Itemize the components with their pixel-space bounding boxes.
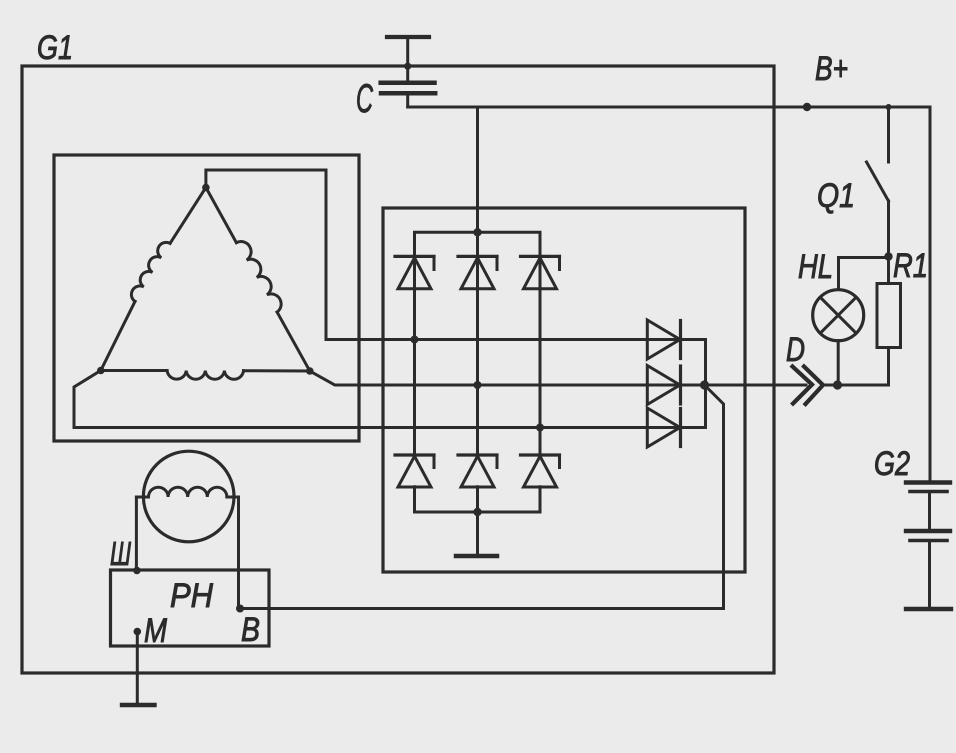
svg-text:G2: G2 [874, 445, 910, 483]
svg-text:HL: HL [798, 248, 833, 286]
svg-text:R1: R1 [893, 247, 928, 285]
svg-text:Q1: Q1 [817, 177, 855, 215]
svg-text:РН: РН [170, 577, 213, 615]
svg-text:G1: G1 [37, 29, 73, 67]
svg-text:C: C [356, 77, 374, 121]
svg-text:D: D [786, 331, 805, 369]
svg-text:B+: B+ [815, 50, 848, 88]
svg-text:В: В [241, 611, 260, 649]
svg-text:Ш: Ш [110, 535, 131, 572]
svg-text:М: М [144, 612, 168, 650]
